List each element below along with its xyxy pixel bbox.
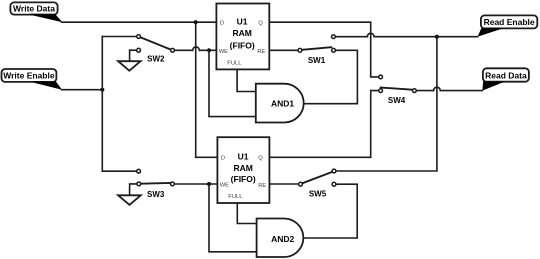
svg-text:SW4: SW4	[388, 96, 406, 105]
node: Write Enable junction	[100, 88, 104, 92]
svg-text:WE: WE	[220, 183, 229, 189]
port tag Read Data	[482, 68, 529, 90]
svg-text:SW3: SW3	[147, 190, 165, 199]
port tag Write Enable	[2, 69, 63, 90]
wire: U1a RE to SW1 common	[269, 49, 298, 51]
wire: SW3 common to U1b WE	[174, 183, 217, 185]
wire: U1a Q rail	[269, 22, 378, 77]
wire: AND2 output to SW5 throw B	[303, 184, 357, 238]
svg-text:Read Enable: Read Enable	[484, 17, 535, 27]
svg-text:RAM: RAM	[234, 163, 253, 173]
wire: U1a FULL to AND1 input a	[237, 69, 256, 91]
svg-text:RAM: RAM	[233, 28, 252, 38]
switch SW4	[379, 75, 417, 105]
port tag Read Enable	[478, 15, 538, 36]
wire: SW2 common to U1a WE with hop	[174, 49, 216, 51]
svg-text:WE: WE	[219, 49, 228, 55]
svg-text:U1: U1	[238, 151, 249, 161]
svg-text:U1: U1	[237, 16, 248, 26]
wire: Write Data rail to U1a D	[62, 21, 217, 23]
wire hop over Q1 drop	[367, 33, 374, 36]
svg-text:(FIFO): (FIFO)	[231, 174, 256, 184]
switch SW1	[298, 35, 335, 65]
wire: SW4 common to Read Data tag with hop	[416, 90, 482, 92]
AND gate AND1	[256, 84, 304, 123]
ground for SW3	[118, 184, 141, 205]
svg-text:AND1: AND1	[271, 99, 294, 109]
wire: Write Enable vertical	[101, 37, 103, 172]
switch SW2	[137, 35, 175, 64]
svg-text:FULL: FULL	[227, 60, 242, 66]
wire: Read Enable rail from SW1 throw A with hop	[335, 36, 477, 38]
wire: Read Enable drop to SW5 throw A	[336, 37, 437, 171]
wire: WE2 branch to AND2 input b	[209, 184, 257, 252]
svg-text:FULL: FULL	[228, 194, 243, 200]
svg-text:Write Data: Write Data	[13, 4, 55, 14]
svg-text:RE: RE	[258, 183, 266, 189]
svg-text:SW1: SW1	[308, 56, 326, 65]
node: WE1 junction	[207, 48, 211, 52]
wire: feed to SW3 throw A	[102, 170, 137, 172]
svg-text:SW5: SW5	[309, 189, 327, 198]
svg-text:Read Data: Read Data	[485, 70, 527, 80]
wire: AND1 output to SW1 throw B	[304, 50, 358, 103]
wire: U1b FULL to AND2 input a	[237, 203, 256, 224]
svg-text:AND2: AND2	[271, 234, 294, 244]
svg-text:D: D	[221, 156, 225, 162]
svg-text:Q: Q	[258, 156, 263, 162]
svg-text:SW2: SW2	[147, 55, 165, 64]
AND gate AND2	[257, 219, 304, 258]
ground for SW2	[118, 50, 141, 70]
switch SW5	[299, 169, 336, 198]
wire: feed to SW2 throw A	[102, 36, 137, 38]
node: Read Enable junction	[435, 35, 439, 39]
svg-text:D: D	[220, 21, 224, 27]
node: WE2 junction	[207, 182, 211, 186]
wire: Write Data drop to U1b D	[196, 22, 218, 157]
svg-text:Q: Q	[258, 21, 263, 27]
svg-text:RE: RE	[257, 49, 265, 55]
svg-text:Write Enable: Write Enable	[3, 71, 55, 81]
wire: U1b RE to SW5 common	[269, 183, 298, 185]
RAM U1b (FIFO)	[217, 137, 269, 203]
wire: U1b Q riser to SW4 throw B	[269, 91, 378, 158]
wire: Write Enable rail	[62, 89, 103, 91]
node: Write Data junction	[194, 20, 198, 24]
port tag Write Data	[10, 2, 62, 22]
wire hop over Read Enable drop	[434, 87, 441, 90]
switch SW3	[137, 169, 175, 199]
wire hop over Write Data drop	[193, 47, 200, 50]
RAM U1a (FIFO)	[216, 4, 269, 70]
svg-text:(FIFO): (FIFO)	[230, 40, 255, 50]
wire: WE1 branch to AND1 input b	[209, 50, 256, 116]
